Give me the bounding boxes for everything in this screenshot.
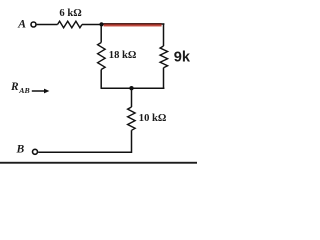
svg-text:6 kΩ: 6 kΩ bbox=[59, 8, 82, 19]
svg-text:B: B bbox=[16, 142, 25, 155]
wire: resistor 6k to top-left node bbox=[82, 24, 102, 26]
wire: bottom of 9k branch bbox=[163, 68, 165, 89]
svg-text:A: A bbox=[17, 17, 26, 31]
svg-text:10 kΩ: 10 kΩ bbox=[139, 113, 167, 124]
wire: junction to resistor 10k bbox=[131, 88, 133, 107]
label A bbox=[17, 17, 26, 31]
resistor 9k bbox=[160, 46, 168, 68]
svg-text:AB: AB bbox=[18, 86, 29, 95]
wire: red highlighted top segment bbox=[104, 23, 162, 27]
label R_AB with arrow bbox=[10, 81, 49, 95]
node: top-left junction bbox=[99, 22, 103, 26]
terminal A bbox=[31, 22, 36, 27]
node: bottom junction bbox=[129, 86, 133, 90]
wire: top of 9k branch bbox=[163, 23, 165, 46]
wire: bottom of 18k branch bbox=[100, 70, 102, 89]
wire: terminal A to resistor 6k bbox=[37, 24, 58, 26]
value label 9k bbox=[174, 50, 191, 66]
resistor 10 kOhm bbox=[128, 107, 136, 130]
svg-text:R: R bbox=[10, 81, 19, 93]
svg-text:18 kΩ: 18 kΩ bbox=[109, 50, 137, 61]
value label 6 kOhm bbox=[59, 8, 82, 19]
wire: top of 18k branch bbox=[100, 25, 102, 43]
svg-text:9k: 9k bbox=[174, 50, 191, 66]
resistor 6 kOhm bbox=[58, 21, 83, 28]
wire: top rail to right branch (black under-line) bbox=[102, 23, 165, 25]
wire: bottom parallel rail bbox=[101, 87, 165, 89]
wire: resistor 10k down to bottom rail corner bbox=[38, 130, 131, 152]
value label 10 kOhm bbox=[139, 113, 167, 124]
label B bbox=[16, 142, 25, 155]
bottom border rule bbox=[0, 162, 197, 164]
terminal B bbox=[33, 149, 38, 154]
value label 18 kOhm bbox=[109, 50, 137, 61]
resistor 18 kOhm bbox=[98, 43, 106, 70]
